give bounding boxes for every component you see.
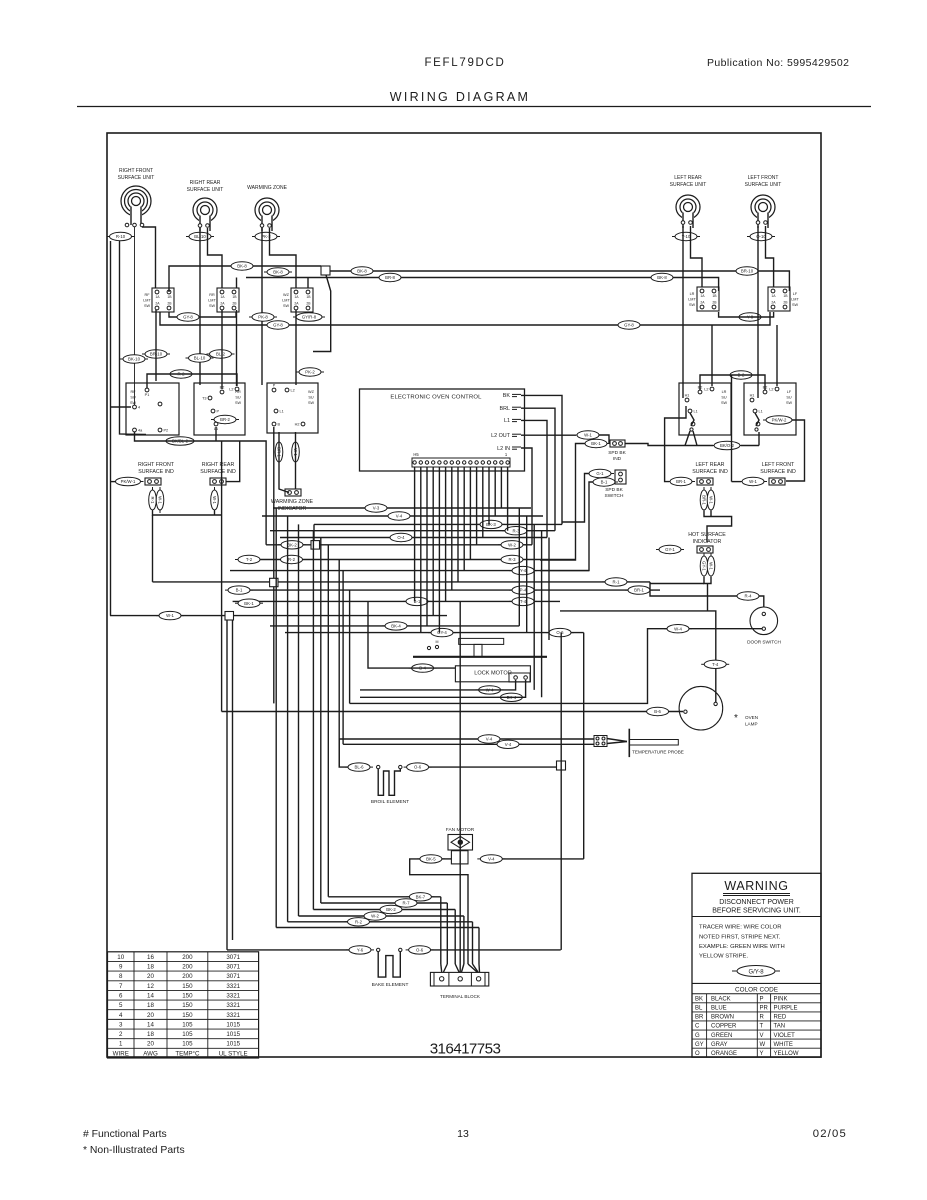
footer non-illustrated (83, 1145, 185, 1156)
broil element label (371, 799, 409, 805)
svg-text:TERMINAL BLOCK: TERMINAL BLOCK (440, 994, 481, 999)
svg-text:# Functional Parts: # Functional Parts (83, 1129, 167, 1140)
wire: spd W-1 line (599, 435, 609, 443)
wire: B-2 between LR/LF (700, 375, 765, 390)
svg-text:NOTED FIRST, STRIPE NEXT.: NOTED FIRST, STRIPE NEXT. (699, 934, 781, 940)
pill BK-1 mesh (235, 599, 263, 607)
right rear surface ind label (200, 462, 236, 475)
svg-text:LR: LR (722, 390, 727, 394)
svg-text:B-6: B-6 (654, 709, 661, 714)
warming zone label (247, 185, 287, 191)
left rear surface ind (697, 478, 713, 485)
svg-text:W-1: W-1 (708, 562, 713, 570)
svg-text:BK-3: BK-3 (486, 522, 496, 527)
pill BR-10 far right (733, 267, 761, 275)
warming zone indicator label (271, 499, 314, 512)
wire: probe feeds (339, 739, 594, 744)
svg-text:O-6: O-6 (414, 765, 422, 770)
wire: WZ left lead down (261, 228, 263, 385)
svg-text:V-4: V-4 (488, 857, 495, 862)
WZ ind vertical pills (275, 439, 299, 465)
svg-text:YELLOW STRIPE.: YELLOW STRIPE. (699, 954, 748, 960)
pill W-1 left (739, 477, 767, 485)
svg-text:RIGHT FRONT: RIGHT FRONT (119, 168, 153, 174)
svg-text:20: 20 (147, 1012, 154, 1019)
svg-text:1A: 1A (700, 294, 705, 298)
pill BL-10 (RR) (186, 232, 214, 240)
svg-text:SURFACE UNIT: SURFACE UNIT (670, 182, 707, 188)
svg-text:TEMP°C: TEMP°C (175, 1050, 200, 1057)
svg-text:L1: L1 (759, 410, 763, 414)
svg-text:LF: LF (787, 390, 792, 394)
pill BK-5 fan (417, 855, 445, 863)
wire: spd B-1 (540, 482, 593, 571)
svg-text:3321: 3321 (226, 992, 240, 999)
svg-text:T-4: T-4 (712, 662, 719, 667)
svg-text:LAMP: LAMP (745, 722, 758, 727)
RR ind vertical pill (211, 487, 219, 513)
svg-text:DISCONNECT POWER: DISCONNECT POWER (719, 899, 794, 906)
EOC pin drop wires (415, 467, 508, 633)
right front surface unit coil (121, 186, 151, 225)
svg-text:BR-1: BR-1 (634, 588, 644, 593)
wire: PK/W-2 loop to LF ind (786, 420, 805, 481)
svg-text:LEFT FRONT: LEFT FRONT (748, 175, 779, 181)
svg-text:T: T (760, 1024, 764, 1030)
svg-text:GY/R-8: GY/R-8 (302, 315, 317, 320)
text: publication number (707, 57, 849, 69)
svg-text:GY-8: GY-8 (273, 323, 283, 328)
svg-text:BK/O-2: BK/O-2 (720, 443, 735, 448)
pill PK-2 (WZ) (252, 232, 280, 240)
svg-text:WIRE: WIRE (113, 1050, 129, 1057)
temperature probe bar (628, 729, 630, 757)
wire: bus upper to LF limit (330, 271, 789, 291)
wire: hot ind bottoms (650, 577, 711, 611)
svg-text:L1: L1 (504, 418, 510, 424)
LF limit switch (768, 287, 799, 311)
svg-text:* Non-Illustrated Parts: * Non-Illustrated Parts (83, 1145, 185, 1156)
svg-text:R-10: R-10 (116, 234, 126, 239)
temperature probe label (632, 750, 684, 755)
svg-text:WZ: WZ (283, 293, 290, 297)
right front surface ind label (138, 462, 175, 475)
svg-text:3321: 3321 (226, 1012, 240, 1019)
svg-text:G: G (695, 1033, 700, 1039)
pill W-4 lock (476, 686, 504, 694)
RR terminals (198, 224, 209, 228)
pill BK-10 (120, 355, 148, 363)
svg-text:BK-8: BK-8 (237, 264, 247, 269)
left rear surface ind label (692, 462, 728, 475)
fan motor box (451, 851, 468, 864)
svg-text:1A: 1A (771, 294, 776, 298)
svg-text:V: V (760, 1033, 764, 1039)
right rear surface unit label (187, 180, 224, 193)
wire: fan right (502, 858, 584, 860)
svg-text:T-2: T-2 (246, 557, 253, 562)
svg-text:RR: RR (209, 293, 215, 297)
wire: WZ sw to ind right (295, 432, 297, 489)
svg-text:SURFACE IND: SURFACE IND (692, 469, 728, 475)
svg-text:PURPLE: PURPLE (774, 1006, 798, 1012)
svg-text:B-1: B-1 (601, 480, 608, 485)
wire: long GY-8 run (160, 312, 770, 325)
pill V-4 fan (477, 855, 505, 863)
pill GY-8 (174, 313, 202, 321)
svg-text:G-1: G-1 (596, 471, 604, 476)
lock motor cam bar (413, 656, 547, 658)
right vertical BK-4b (541, 531, 543, 698)
svg-text:V-3: V-3 (373, 506, 380, 511)
pill BL-2 (207, 350, 235, 358)
wire: ind run down (152, 515, 154, 582)
svg-text:BROIL ELEMENT: BROIL ELEMENT (371, 799, 409, 805)
mid vertical from junction (273, 587, 275, 704)
svg-text:L1: L1 (280, 410, 284, 414)
LR limit switch (688, 287, 719, 311)
svg-text:2B: 2B (232, 302, 237, 306)
svg-text:SU: SU (721, 395, 727, 399)
svg-text:SW: SW (235, 401, 242, 405)
LF terminals (756, 221, 767, 225)
left front surface unit label (745, 175, 782, 188)
wire: fan left (410, 859, 468, 964)
svg-text:150: 150 (182, 1012, 193, 1019)
svg-text:105: 105 (182, 1041, 193, 1048)
svg-text:BK-8: BK-8 (357, 269, 367, 274)
svg-text:105: 105 (182, 1031, 193, 1038)
wire: RR 1B to lower bus (236, 278, 238, 289)
svg-text:1: 1 (119, 1041, 123, 1048)
right rear surface ind (210, 478, 226, 485)
footer functional parts (83, 1129, 167, 1140)
pill Y-6 bake (346, 946, 374, 954)
terminal block box (430, 972, 488, 986)
header rule line (77, 106, 871, 108)
svg-text:150: 150 (182, 992, 193, 999)
svg-text:BAKE ELEMENT: BAKE ELEMENT (372, 982, 409, 988)
wire mesh horizontal rows (110, 508, 660, 633)
svg-text:OVEN: OVEN (745, 715, 758, 720)
svg-text:SURFACE IND: SURFACE IND (760, 469, 796, 475)
wire: RR ind right link (226, 441, 240, 482)
svg-text:1A: 1A (155, 295, 160, 299)
svg-text:Y-4: Y-4 (520, 568, 527, 573)
wire: lamp top feed (560, 611, 716, 704)
svg-text:W-1: W-1 (157, 496, 162, 504)
svg-text:LEFT REAR: LEFT REAR (695, 462, 724, 468)
svg-text:R: R (760, 1015, 765, 1021)
svg-text:*: * (734, 713, 738, 724)
wire: LR ind join (704, 511, 732, 542)
pill PK-2b (296, 368, 324, 376)
LR surface switch (679, 383, 731, 435)
svg-text:BK-8: BK-8 (657, 275, 667, 280)
svg-text:200: 200 (182, 954, 193, 961)
left front surface unit coil (751, 195, 775, 228)
wire: LR L1 switch arm (685, 413, 697, 446)
wire: RR 2B drop (236, 310, 238, 386)
wire: b-4 line (368, 601, 455, 668)
svg-text:7: 7 (119, 983, 123, 990)
wire: WZ 2A drop (295, 310, 297, 385)
left rear surface unit label (670, 175, 707, 188)
svg-text:LF: LF (793, 292, 798, 296)
wire: LR 2B to LF 2A (719, 312, 774, 317)
WZ surface switch (267, 383, 318, 433)
svg-text:L2: L2 (291, 389, 295, 393)
warning and color code box (692, 873, 821, 1057)
wire: twin2 end (232, 933, 234, 940)
svg-text:2B: 2B (167, 302, 172, 306)
svg-text:BK-7: BK-7 (416, 894, 426, 899)
pill V-4 probe2 (494, 740, 522, 748)
wire: LR coil left lead down (682, 226, 684, 398)
svg-text:BR: BR (695, 1015, 704, 1021)
footer page number (457, 1128, 469, 1140)
svg-text:SU: SU (308, 395, 314, 399)
svg-text:W-1: W-1 (584, 433, 592, 438)
wire: EOC BRL (521, 408, 555, 531)
svg-text:PINK: PINK (774, 997, 788, 1003)
svg-text:5: 5 (119, 1002, 123, 1009)
temperature probe connector (594, 736, 607, 747)
svg-text:H1: H1 (750, 394, 755, 398)
svg-text:RIGHT REAR: RIGHT REAR (190, 180, 221, 186)
hot ind vertical pills (700, 553, 715, 579)
wire: LR coil right lead down (691, 226, 703, 287)
svg-text:SURFACE IND: SURFACE IND (138, 469, 174, 475)
svg-text:SW: SW (786, 401, 793, 405)
lock motor cam dots (427, 640, 438, 650)
svg-text:1B: 1B (783, 294, 788, 298)
wire: bake line (227, 949, 561, 951)
wire: EOC L1 (521, 420, 547, 537)
svg-text:BK-10: BK-10 (128, 357, 141, 362)
bake element label (372, 982, 409, 988)
svg-text:M: M (436, 640, 439, 644)
svg-text:BK-2: BK-2 (386, 907, 396, 912)
svg-text:BL-2: BL-2 (216, 352, 226, 357)
svg-text:INDICATOR: INDICATOR (278, 506, 307, 512)
pill G-1 spd (586, 469, 614, 477)
svg-text:SURFACE IND: SURFACE IND (200, 469, 236, 475)
pill PK/W-2 in LF (763, 416, 795, 424)
svg-text:PK-8: PK-8 (258, 315, 268, 320)
wire: LF coil right lead down (766, 226, 774, 287)
wire: RF 1B up to bus (169, 266, 321, 292)
hot surface indicator box (697, 546, 713, 553)
fan motor label (446, 827, 475, 833)
EOC right pin labels (491, 393, 521, 452)
svg-text:BL: BL (695, 1006, 703, 1012)
svg-text:BK-1: BK-1 (591, 441, 601, 446)
svg-text:BLUE: BLUE (711, 1006, 727, 1012)
svg-text:BL-10: BL-10 (194, 356, 206, 361)
svg-text:WARMING ZONE: WARMING ZONE (247, 185, 287, 191)
wire mesh pills (156, 504, 653, 637)
svg-text:200: 200 (182, 963, 193, 970)
svg-text:GY-1: GY-1 (701, 561, 706, 571)
wire: door switch top feed (650, 582, 764, 607)
broil element (377, 765, 402, 795)
svg-text:PK/W-1: PK/W-1 (121, 479, 136, 484)
svg-text:IND: IND (613, 456, 622, 462)
pill BR-8 bus right2 (376, 273, 404, 281)
wire: EOC BK (521, 395, 562, 524)
svg-text:HOT SURFACE: HOT SURFACE (688, 532, 726, 538)
svg-text:SW: SW (144, 304, 151, 308)
svg-text:R-2: R-2 (288, 557, 296, 562)
right front surface unit label (118, 168, 155, 181)
wire: broil feed left (339, 739, 348, 767)
left front surface ind label (760, 462, 796, 475)
pill V-4 probe1 (475, 735, 503, 743)
svg-text:V-4: V-4 (486, 737, 493, 742)
svg-text:BK-8: BK-8 (273, 270, 283, 275)
left front surface ind (769, 478, 785, 485)
pill GY-8 c (615, 321, 643, 329)
svg-text:Y: Y (760, 1051, 764, 1057)
pill PK/W-1 (113, 477, 144, 485)
svg-text:O-4: O-4 (397, 535, 405, 540)
svg-text:3071: 3071 (226, 973, 240, 980)
svg-text:W-1: W-1 (708, 496, 713, 504)
svg-text:BK-5: BK-5 (426, 857, 436, 862)
pill Y-8 right (736, 313, 764, 321)
svg-text:4: 4 (138, 406, 140, 410)
svg-text:2B: 2B (712, 301, 717, 305)
pill S-8 bus (264, 268, 292, 276)
spd bk switch label (605, 487, 624, 499)
pill BK-8 bus right1 (348, 267, 376, 275)
pill BK/O-2 (711, 441, 743, 449)
hot surface indicator label (688, 532, 726, 545)
wire: R-2 loop over RF/RR switches (147, 374, 237, 388)
pill PK-8 (249, 313, 277, 321)
svg-text:SW: SW (689, 303, 696, 307)
svg-text:BR-1: BR-1 (701, 495, 706, 505)
svg-text:ELECTRONIC OVEN CONTROL: ELECTRONIC OVEN CONTROL (390, 395, 482, 401)
spd bk switch box (615, 470, 626, 484)
svg-text:W: W (760, 1042, 766, 1048)
svg-text:2A: 2A (294, 302, 299, 306)
wire: BK/BL-2 link (135, 427, 267, 545)
svg-text:P1: P1 (145, 393, 150, 397)
mesh junction square W-1 (225, 612, 234, 621)
svg-text:02/05: 02/05 (813, 1128, 847, 1140)
wire: WZ sw to ind left (279, 432, 289, 493)
svg-text:GREEN: GREEN (711, 1033, 732, 1039)
svg-text:20: 20 (147, 973, 154, 980)
svg-text:1015: 1015 (226, 1041, 240, 1048)
svg-text:1A: 1A (294, 295, 299, 299)
svg-text:150: 150 (182, 1002, 193, 1009)
svg-text:3321: 3321 (226, 983, 240, 990)
svg-text:R-3: R-3 (509, 557, 517, 562)
right rear surface unit coil (193, 198, 217, 231)
svg-text:BR-1: BR-1 (676, 479, 686, 484)
svg-text:2A: 2A (771, 301, 776, 305)
svg-text:WHITE: WHITE (774, 1042, 793, 1048)
svg-text:W-2: W-2 (508, 542, 516, 547)
oven lamp label (734, 713, 758, 727)
wire: W-1 feed (732, 375, 742, 482)
svg-text:LMT: LMT (208, 298, 216, 302)
pill B-2 right (727, 371, 755, 379)
wire: v-4 drop (560, 633, 562, 950)
pill GY-8 b (264, 321, 292, 329)
electronic oven control box (360, 389, 525, 471)
wire: LF L2 riser (776, 325, 778, 386)
wire: LR L2 riser (711, 325, 713, 386)
svg-text:BRL: BRL (500, 406, 511, 412)
wire: RF third terminal to 1A (142, 227, 156, 288)
bottom bundle wires (276, 897, 479, 964)
RR limit switch (208, 288, 239, 312)
wire: RR ind run to lamp (221, 441, 223, 712)
wire: WZ B drop to junction (273, 427, 275, 578)
bus junction square (321, 266, 330, 275)
pill B-1 spd (590, 478, 618, 486)
svg-text:SW: SW (209, 304, 216, 308)
wire: RF 2A drop (155, 310, 157, 381)
svg-text:200: 200 (182, 973, 193, 980)
svg-text:EXAMPLE: GREEN WIRE WIT: EXAMPLE: GREEN WIRE WITH (699, 944, 785, 950)
terminal block label (440, 994, 481, 999)
junction square broil (557, 761, 566, 770)
wire: EOC L2 IN (521, 448, 532, 545)
svg-text:Y-6: Y-6 (357, 948, 364, 953)
svg-text:BL-6: BL-6 (354, 765, 364, 770)
LF surface switch (744, 383, 796, 435)
left bundle verticals (276, 508, 349, 928)
svg-text:LEFT REAR: LEFT REAR (674, 175, 702, 181)
svg-text:R-4: R-4 (745, 594, 753, 599)
svg-text:SW: SW (721, 401, 728, 405)
svg-text:2B: 2B (306, 302, 311, 306)
svg-text:L2 IN: L2 IN (497, 446, 510, 452)
wire: bus lower to LR limit (246, 278, 719, 292)
wire: LF coil left lead down (757, 226, 759, 398)
WZ limit switch (282, 288, 313, 312)
svg-text:UL STYLE: UL STYLE (219, 1050, 248, 1057)
wire: WZ 1B to lower bus (307, 278, 309, 289)
svg-text:SW: SW (130, 401, 137, 405)
svg-text:GY-1: GY-1 (665, 547, 675, 552)
svg-text:BR-8: BR-8 (385, 275, 395, 280)
door switch circle (750, 607, 778, 635)
svg-text:AWG: AWG (143, 1050, 158, 1057)
svg-text:SW: SW (792, 303, 799, 307)
wire: drops into terminal block (441, 601, 480, 972)
wire: spd BK-1 down (540, 444, 585, 561)
svg-text:L2: L2 (769, 388, 773, 392)
svg-text:RR: RR (235, 390, 241, 394)
pill BK-8 bus left (228, 262, 256, 270)
svg-text:RF: RF (130, 390, 136, 394)
right vertical BK-4 (518, 508, 520, 626)
wire: LR H1 to LR ind (665, 406, 686, 482)
svg-text:SWITCH: SWITCH (605, 493, 624, 499)
terminal block circles (440, 977, 481, 981)
wire: WZ right lead down (270, 228, 297, 288)
svg-text:105: 105 (182, 1021, 193, 1028)
pill Y-10 (LR) (672, 232, 700, 240)
svg-text:2A: 2A (700, 301, 705, 305)
svg-text:GY-8: GY-8 (183, 315, 193, 320)
